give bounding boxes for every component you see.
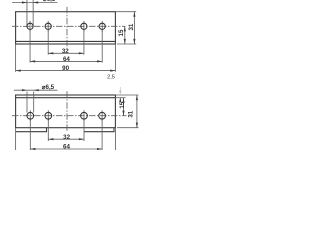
svg-text:32: 32	[63, 134, 70, 141]
svg-text:⌀6,5: ⌀6,5	[42, 84, 55, 91]
svg-text:15: 15	[119, 101, 126, 108]
svg-text:31: 31	[128, 23, 135, 30]
svg-text:90: 90	[62, 65, 69, 72]
svg-text:⌀6,5: ⌀6,5	[43, 0, 56, 3]
svg-text:15: 15	[118, 29, 125, 36]
svg-text:64: 64	[63, 143, 70, 150]
svg-text:32: 32	[62, 48, 69, 55]
svg-text:2,5: 2,5	[107, 75, 115, 81]
svg-text:31: 31	[128, 110, 135, 117]
svg-text:64: 64	[63, 56, 70, 63]
